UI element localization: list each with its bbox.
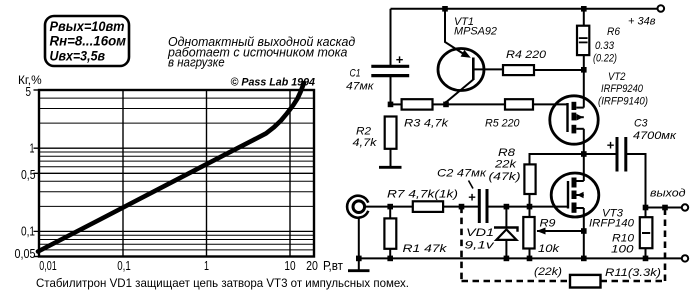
output terminal bottom	[682, 255, 688, 261]
svg-text:C2 47мк: C2 47мк	[437, 168, 487, 180]
node VT1 collector-R3/R5	[443, 102, 449, 108]
svg-text:(47k): (47k)	[489, 171, 521, 183]
wire R8/C3 node horizontal	[530, 154, 618, 164]
wire R8 bottom	[529, 194, 531, 207]
svg-text:Р,вт: Р,вт	[323, 259, 343, 273]
wire C3 right to output	[627, 154, 646, 208]
node ground-R9	[527, 256, 533, 262]
node output-feedback	[662, 205, 668, 211]
wire C1 branch down from rail	[390, 9, 392, 65]
wire R10 bottom	[645, 248, 647, 258]
wire VD1 top	[505, 207, 507, 228]
svg-text:MPSA92: MPSA92	[454, 26, 497, 38]
svg-text:5: 5	[26, 85, 32, 99]
svg-text:R4 220: R4 220	[506, 49, 547, 61]
node R7/C2/feedback	[459, 204, 465, 210]
wire VT1 collector node to R5	[446, 103, 505, 105]
svg-text:R6: R6	[607, 26, 621, 38]
resistor R3	[402, 99, 449, 129]
capacitor C2	[437, 168, 487, 224]
node C1/R2/R3	[388, 102, 394, 108]
svg-text:+ 34в: + 34в	[628, 16, 656, 28]
node ground-VT3	[581, 256, 587, 262]
svg-text:0,01: 0,01	[39, 259, 57, 273]
svg-text:R11(3.3k): R11(3.3k)	[605, 267, 661, 279]
node R8/R9 gate net	[527, 204, 533, 210]
node VT3 source-R9 wiper	[581, 228, 587, 234]
svg-text:0.33: 0.33	[595, 40, 615, 52]
ground under input jack	[348, 258, 370, 270]
svg-text:C1: C1	[350, 68, 361, 80]
terminal +34v	[628, 5, 664, 27]
wire node to VT3 drain	[583, 154, 585, 181]
wire R6 bottom to VT2 source	[583, 55, 585, 70]
svg-text:Rн=8...16ом: Rн=8...16ом	[50, 34, 127, 49]
wire R9 wiper to VT3 source	[537, 230, 584, 232]
wire top rail +34v	[391, 8, 658, 10]
svg-text:IRFP140: IRFP140	[589, 218, 635, 230]
svg-text:(0.22): (0.22)	[593, 53, 617, 65]
capacitor C1	[346, 52, 409, 93]
svg-text:C3: C3	[634, 118, 648, 130]
wire R7 to C2	[443, 206, 478, 208]
node rail-R6	[581, 6, 587, 12]
svg-text:R3 4,7k: R3 4,7k	[404, 118, 449, 130]
resistor R1	[384, 218, 447, 255]
svg-text:+: +	[396, 52, 404, 67]
svg-text:R8: R8	[498, 147, 516, 159]
resistor R11	[570, 267, 661, 288]
svg-text:0,1: 0,1	[117, 259, 131, 273]
node C2/VD1 gate net	[504, 204, 510, 210]
svg-text:Uвх=3,5в: Uвх=3,5в	[50, 48, 106, 63]
svg-text:R2: R2	[356, 126, 371, 138]
svg-text:R5 220: R5 220	[485, 118, 520, 130]
svg-text:© Pass Lab 1994: © Pass Lab 1994	[231, 77, 316, 89]
node R4/R6/VT2 source	[581, 67, 587, 73]
wire VD1 bottom	[505, 240, 507, 259]
wire VT2 drain to output node	[583, 129, 585, 154]
wire VT1 base to R4	[473, 68, 503, 70]
node VT2 drain/R8/C3/VT3 drain	[581, 151, 587, 157]
svg-text:47мк: 47мк	[346, 81, 374, 93]
svg-text:R7 4,7k(1k): R7 4,7k(1k)	[387, 189, 458, 201]
node ground-VD1	[504, 256, 510, 262]
svg-text:(22k): (22k)	[534, 266, 562, 278]
svg-text:100: 100	[611, 244, 635, 256]
svg-text:Стабилитрон VD1 защищает цепь: Стабилитрон VD1 защищает цепь затвора VT…	[36, 276, 409, 290]
capacitor C3	[607, 118, 677, 172]
svg-text:R9: R9	[540, 218, 556, 230]
resistor R7	[387, 189, 458, 212]
wire C1 to R3 node	[390, 77, 392, 105]
svg-text:9,1v: 9,1v	[465, 240, 496, 252]
node ground-R1	[387, 256, 393, 262]
resistor R6	[577, 26, 621, 65]
output terminal top	[650, 188, 688, 211]
wire R9 top	[529, 207, 531, 217]
distortion curve	[38, 83, 304, 252]
svg-text:VD1: VD1	[466, 227, 494, 239]
node output-R10	[643, 205, 649, 211]
svg-text:в нагрузке: в нагрузке	[168, 56, 225, 70]
svg-text:0,5: 0,5	[21, 168, 36, 182]
wire R1 top	[389, 207, 391, 219]
transistor VT1 MPSA92	[438, 16, 497, 104]
node ground-R10	[643, 256, 649, 262]
description text	[167, 35, 355, 70]
wire VT3 source to ground rail	[583, 208, 585, 258]
svg-text:0,05: 0,05	[15, 247, 36, 261]
axis ticks	[34, 90, 40, 257]
svg-text:4700мк: 4700мк	[633, 130, 677, 142]
svg-text:20: 20	[306, 259, 318, 273]
svg-text:10: 10	[284, 259, 295, 273]
ground under R2	[379, 166, 402, 169]
wire R6 top from rail	[583, 9, 585, 26]
dashed feedback bottom right	[601, 280, 666, 283]
dashed feedback left leg	[460, 207, 463, 281]
graph axis labels	[15, 85, 344, 273]
svg-text:4,7k: 4,7k	[353, 137, 378, 149]
svg-text:Кг,%: Кг,%	[18, 73, 42, 87]
wire VT1 emitter from rail	[445, 9, 465, 55]
node ground-input	[356, 256, 362, 262]
svg-text:выход: выход	[650, 188, 686, 200]
svg-text:VT2: VT2	[608, 71, 626, 83]
svg-text:22k: 22k	[494, 159, 517, 171]
graph border	[39, 90, 314, 257]
svg-text:1: 1	[30, 142, 35, 156]
wire C2 to gate node	[488, 206, 568, 208]
potentiometer R9	[523, 217, 562, 278]
svg-text:10k: 10k	[538, 243, 560, 255]
transistor VT2 IRFP9240	[550, 71, 648, 144]
wire input jack to R7	[365, 206, 413, 208]
input jack	[347, 196, 368, 218]
svg-text:0,1: 0,1	[21, 225, 35, 239]
wire output line	[646, 207, 683, 209]
resistor R10	[611, 217, 652, 255]
dashed feedback right leg	[664, 208, 667, 282]
svg-text:R1 47k: R1 47k	[403, 243, 448, 255]
svg-text:Рвых=10вт: Рвых=10вт	[50, 19, 125, 34]
parameters box	[45, 16, 129, 66]
wire R3 node to R3	[391, 103, 402, 105]
wire input jack ground drop	[358, 218, 360, 259]
node input-R1	[387, 204, 393, 210]
svg-text:(IRFP9140): (IRFP9140)	[598, 96, 648, 108]
wire VT2 source into circle	[583, 70, 585, 108]
zener diode VD1	[465, 227, 518, 252]
wire R9 bottom	[529, 249, 531, 259]
distortion graph grid	[34, 90, 315, 257]
wire R4 to VT2 source node	[534, 69, 584, 71]
node rail-VT1 emitter	[442, 6, 448, 12]
wire R3 to VT1 collector node	[433, 103, 447, 105]
svg-text:+: +	[468, 190, 476, 205]
wire R1 bottom	[389, 249, 391, 259]
dashed feedback bottom left	[462, 280, 571, 283]
transistor VT3 IRFP140	[551, 173, 635, 230]
svg-text:+: +	[607, 138, 615, 153]
resistor R2	[353, 117, 397, 168]
svg-text:IRFP9240: IRFP9240	[601, 83, 644, 95]
resistor R5	[485, 99, 533, 129]
svg-text:1: 1	[204, 259, 209, 273]
resistor R4	[503, 49, 547, 75]
wire R10 top	[645, 208, 647, 218]
wire ground rail bottom	[359, 257, 682, 259]
resistor R8	[489, 147, 536, 194]
wire R5 to VT2 gate	[533, 103, 568, 105]
